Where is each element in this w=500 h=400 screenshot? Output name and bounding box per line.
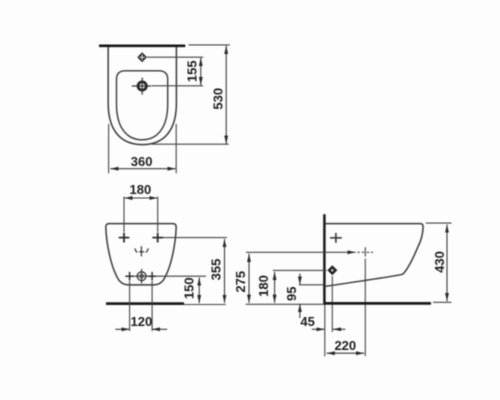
dim line 220 [327,352,365,354]
floor level ext to left of wall [246,303,325,305]
ext line 155 bottom (from drain) [152,85,204,87]
drain diamond on wall [327,265,337,275]
ext line 530 bottom [152,143,229,145]
bidet outer outline (plan) [108,47,176,145]
inlet dashed crosshair (side) [357,247,373,256]
floor line (front, thick) [106,302,184,305]
ext line from diamond down to 45 [331,276,333,332]
ext 95 top (body bottom at wall) [299,284,324,286]
tap hole symbol [137,52,147,62]
dim 95 outside arrows [299,274,301,285]
ext 430 top [426,222,452,224]
ext 275 with leader arrow to inlet [246,251,356,253]
dim line 355 [224,239,226,303]
drain cross right [148,272,156,281]
ext line 355 top [163,237,228,239]
dim line 430 [446,225,448,302]
svg-text:360: 360 [131,154,153,169]
floor line (side, thick) [324,302,431,305]
svg-text:180: 180 [256,275,271,297]
fixing cross (side) [330,233,342,243]
ext 180 side (diamond level) [273,269,327,271]
dim line 180 side [274,272,276,303]
dim line 180 (front) [124,197,157,199]
svg-text:155: 155 [184,60,199,82]
svg-text:180: 180 [130,182,152,197]
svg-text:150: 150 [182,277,197,299]
dim 45 outside arrows [312,328,325,330]
svg-text:45: 45 [300,314,314,329]
fixing hole cross right [152,233,163,243]
bowl inner rim (plan) [117,71,168,140]
dim line 360 [110,168,175,170]
dim line 120 (outside arrows) [115,328,129,330]
ext line down from inlet to 220 [364,259,366,357]
floor ext thin to 355 [184,304,226,306]
drain cross left [126,272,134,281]
svg-text:120: 120 [131,314,153,329]
svg-text:355: 355 [208,259,223,281]
svg-text:530: 530 [211,88,226,110]
ext line 530 top [189,44,230,46]
wall line (thick) [323,214,326,305]
bidet profile (side) [326,224,424,287]
bidet body (front) [106,224,176,285]
drain symbol (plan) [132,78,151,95]
ext 430 bottom [433,301,452,303]
ext line 360 right [175,124,177,173]
hidden inlet symbol (front) [135,246,149,256]
drain line through crosses, ext for 150 [125,275,206,277]
ext line 155 top (from tap hole) [147,56,203,58]
dim line 155 [200,58,202,86]
svg-text:220: 220 [334,338,356,353]
svg-text:95: 95 [284,287,299,301]
dim line 150 [198,278,200,304]
drain circle (front) [137,272,146,281]
ext line 360 left [108,124,110,173]
wall ext below floor [324,305,326,356]
svg-text:275: 275 [233,271,248,293]
dim line 275 [248,254,250,303]
wall bar (plan view) [99,44,185,47]
dim line 530 [225,46,227,144]
ext lines 120 down [130,281,153,331]
ext lines 180 down to crosses [124,197,158,232]
svg-text:430: 430 [432,251,447,273]
fixing hole cross left [119,233,130,243]
